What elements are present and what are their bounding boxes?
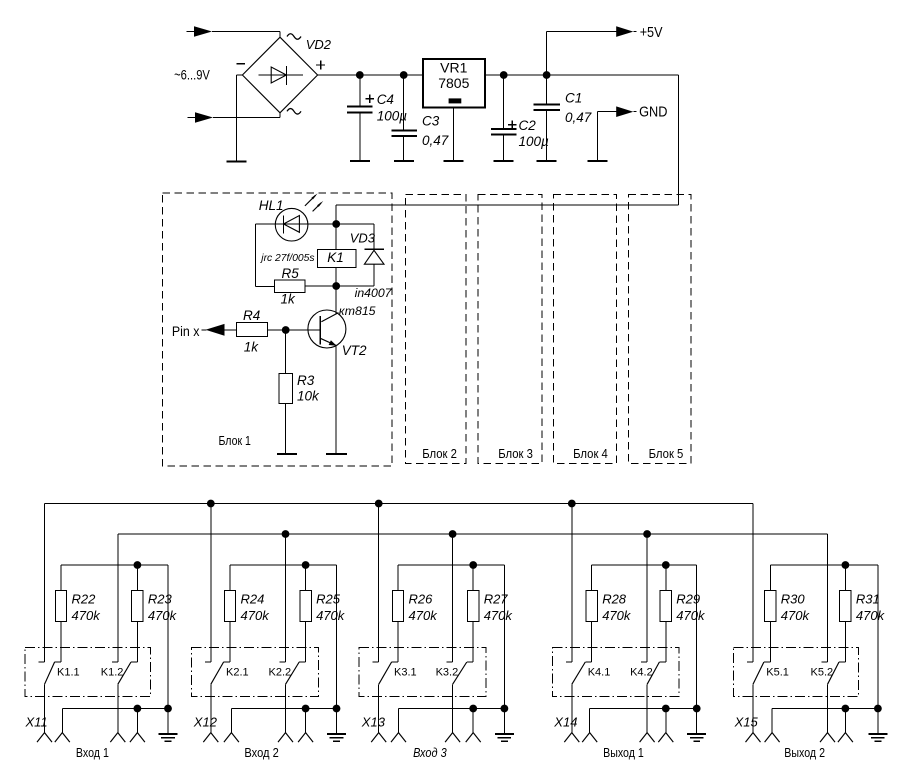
node ground tap group 1 bbox=[164, 705, 172, 713]
earth ground group 2 bbox=[327, 733, 346, 735]
transistor VT2 circle bbox=[308, 310, 346, 348]
svg-text:470k: 470k bbox=[676, 608, 706, 623]
svg-text:470k: 470k bbox=[484, 608, 514, 623]
block 3 dashed box bbox=[478, 195, 542, 464]
svg-text:K3.1: K3.1 bbox=[394, 667, 417, 679]
relay contacts K5 dash-dot box bbox=[734, 648, 859, 697]
wire bridge minus to ground bbox=[236, 74, 242, 76]
svg-text:1k: 1k bbox=[281, 291, 297, 306]
local bus group 5 bbox=[770, 564, 878, 566]
node bottom bus R29 tap bbox=[662, 705, 670, 713]
connector pin (K2.1) bbox=[203, 733, 211, 743]
earth ground group 1 bbox=[159, 733, 178, 735]
node local bus R31 tap bbox=[842, 561, 850, 569]
node C3 junction bbox=[400, 71, 408, 79]
wire bus2 drop to K4.2 bbox=[646, 534, 648, 662]
wire bus2 drop to K3.2 bbox=[452, 534, 454, 662]
wire bus end to pin group 1 bbox=[61, 709, 63, 733]
wire K1.2 to pin bbox=[117, 684, 119, 732]
connector pin (common b, group 2) bbox=[298, 733, 306, 743]
svg-text:Вход 1: Вход 1 bbox=[76, 745, 109, 760]
svg-text:470k: 470k bbox=[241, 608, 271, 623]
svg-text:R3: R3 bbox=[297, 373, 315, 388]
svg-text:K4.1: K4.1 bbox=[588, 667, 611, 679]
wire HL1 left rail bbox=[254, 224, 256, 286]
connector pin (K1.2) bbox=[110, 733, 118, 743]
K5.2 fixed contact hook bbox=[822, 661, 828, 663]
svg-text:Блок 1: Блок 1 bbox=[219, 433, 251, 448]
earth ground group 4 bbox=[687, 733, 706, 735]
svg-text:K2.1: K2.1 bbox=[226, 667, 249, 679]
contact K5.2 moving contact hook bbox=[839, 661, 845, 663]
connector pin (common b, group 1) bbox=[130, 733, 138, 743]
svg-text:Блок 4: Блок 4 bbox=[573, 446, 608, 461]
svg-text:C4: C4 bbox=[377, 92, 394, 107]
svg-text:GND: GND bbox=[639, 104, 667, 120]
svg-text:Вход 3: Вход 3 bbox=[413, 745, 447, 760]
svg-text:~6...9V: ~6...9V bbox=[174, 68, 210, 83]
contact K3.2 moving contact hook bbox=[467, 661, 473, 663]
ground (GND branch) bbox=[588, 160, 608, 162]
svg-text:100µ: 100µ bbox=[519, 134, 550, 149]
connector pin (K1.1) bbox=[37, 733, 45, 743]
contact K1.1 blade bbox=[45, 662, 55, 684]
wire local bus to ground group 4 bbox=[696, 565, 698, 734]
ground (VT2 emitter) bbox=[326, 453, 347, 455]
svg-text:R24: R24 bbox=[241, 592, 265, 607]
resistor R31 bbox=[844, 565, 846, 591]
svg-text:R30: R30 bbox=[781, 592, 806, 607]
wire R4 to base node bbox=[268, 329, 286, 331]
node bottom bus R25 tap bbox=[302, 705, 310, 713]
relay coil K1 lead top bbox=[335, 224, 337, 249]
contact K2.2 blade bbox=[286, 662, 300, 684]
K4.2 fixed contact hook bbox=[641, 661, 647, 663]
node bus1 tap group 2 bbox=[207, 500, 215, 508]
resistor R25 bbox=[305, 565, 307, 591]
node bottom bus R31 tap bbox=[842, 705, 850, 713]
block 1 dashed box bbox=[163, 193, 393, 466]
svg-text:X14: X14 bbox=[553, 715, 577, 730]
svg-text:470k: 470k bbox=[602, 608, 632, 623]
HL1 led arrow 1 bbox=[305, 195, 316, 206]
+5V output arrow bbox=[616, 26, 633, 37]
contact K5.2 blade bbox=[828, 662, 840, 684]
svg-text:470k: 470k bbox=[856, 608, 886, 623]
contact K4.2 blade bbox=[647, 662, 659, 684]
svg-text:470k: 470k bbox=[781, 608, 811, 623]
relay contacts K3 dash-dot box bbox=[359, 648, 486, 697]
ground (C3) bbox=[394, 160, 414, 162]
wire node to VD3 bbox=[336, 223, 374, 225]
svg-text:VR1: VR1 bbox=[440, 60, 467, 76]
contact K3.1 blade bbox=[379, 662, 392, 684]
block 2 dashed box bbox=[406, 195, 467, 464]
signal bus 1 (upper) bbox=[45, 503, 754, 505]
connector pin (K4.2) bbox=[640, 733, 648, 743]
K3.2 fixed contact hook bbox=[447, 661, 453, 663]
svg-text:K1: K1 bbox=[327, 250, 344, 265]
C2 polarity + bbox=[508, 124, 517, 126]
node local bus R23 tap bbox=[134, 561, 142, 569]
wire supply into block1 bbox=[336, 204, 679, 206]
node bottom bus R23 tap bbox=[134, 705, 142, 713]
contact K1.2 moving contact hook bbox=[131, 661, 137, 663]
svg-text:Pin x: Pin x bbox=[172, 323, 200, 339]
node local bus R29 tap bbox=[662, 561, 670, 569]
svg-text:C3: C3 bbox=[422, 114, 440, 129]
earth ground group 3 bbox=[495, 733, 514, 735]
wire K2.2 to pin bbox=[285, 684, 287, 732]
K3.1 fixed contact hook bbox=[373, 661, 379, 663]
connector pin (K4.1) bbox=[564, 733, 572, 743]
wire collector bbox=[335, 286, 337, 313]
VR1 ground tab bbox=[449, 98, 462, 103]
svg-text:R5: R5 bbox=[282, 266, 300, 281]
svg-text:470k: 470k bbox=[409, 608, 439, 623]
svg-text:K1.2: K1.2 bbox=[101, 667, 124, 679]
contact K3.2 blade bbox=[453, 662, 467, 684]
K5.1 fixed contact hook bbox=[747, 661, 753, 663]
wire bus end to pin group 2 bbox=[230, 709, 232, 733]
local bus group 1 bbox=[61, 564, 168, 566]
bottom common bus group 3 bbox=[399, 708, 505, 710]
contact K2.1 blade bbox=[211, 662, 224, 684]
node bus1 tap group 4 bbox=[568, 500, 576, 508]
resistor R26 bbox=[397, 565, 399, 591]
svg-text:кт815: кт815 bbox=[339, 304, 376, 318]
K4.1 fixed contact hook bbox=[566, 661, 572, 663]
svg-text:C2: C2 bbox=[519, 118, 537, 133]
input terminal arrow bottom (~ input 2) bbox=[188, 117, 198, 119]
ground (C2) bbox=[494, 160, 514, 162]
svg-text:R22: R22 bbox=[72, 592, 97, 607]
bridge ~ mark top bbox=[287, 34, 301, 40]
contact K5.1 moving contact hook bbox=[764, 661, 770, 663]
svg-text:X11: X11 bbox=[25, 715, 48, 730]
K1.2 fixed contact hook bbox=[112, 661, 118, 663]
svg-text:VD2: VD2 bbox=[306, 37, 332, 52]
node ground tap group 4 bbox=[693, 705, 701, 713]
Pin x arrow bbox=[202, 329, 207, 331]
HL1 led arrow 2 bbox=[313, 203, 322, 212]
connector pin (common b, group 4) bbox=[658, 733, 666, 743]
node C2 junction bbox=[500, 71, 508, 79]
connector pin (K5.2) bbox=[820, 733, 828, 743]
K2.1 fixed contact hook bbox=[205, 661, 211, 663]
svg-text:R26: R26 bbox=[409, 592, 434, 607]
connector pin (K2.2) bbox=[278, 733, 286, 743]
node local bus R27 tap bbox=[469, 561, 477, 569]
relay coil K1 lead bottom bbox=[335, 267, 337, 286]
block 5 dashed box bbox=[629, 195, 692, 464]
wire K5.2 to pin bbox=[827, 684, 829, 732]
wire local bus to ground group 1 bbox=[167, 565, 169, 734]
wire bus2 drop to K1.2 bbox=[117, 534, 119, 662]
svg-text:1k: 1k bbox=[244, 339, 260, 354]
wire K1.1 to pin bbox=[44, 684, 46, 732]
svg-text:Блок 3: Блок 3 bbox=[498, 446, 533, 461]
contact K4.2 moving contact hook bbox=[659, 661, 665, 663]
contact K1.2 blade bbox=[118, 662, 131, 684]
wire bus1 drop to K2.1 bbox=[210, 504, 212, 663]
wire bus2 drop to K5.2 bbox=[827, 534, 829, 662]
ground (R3) bbox=[277, 453, 297, 455]
contact K2.1 moving contact hook bbox=[224, 661, 230, 663]
svg-text:K1.1: K1.1 bbox=[57, 667, 80, 679]
wire bus1 drop to K4.1 bbox=[571, 504, 573, 663]
resistor R4 bbox=[236, 323, 267, 337]
wire main +5V rail right bbox=[485, 74, 679, 76]
LED HL1 bbox=[275, 208, 308, 241]
connector pin (K3.2) bbox=[445, 733, 453, 743]
resistor R28 bbox=[591, 565, 593, 591]
earth ground group 5 bbox=[868, 733, 887, 735]
svg-text:C1: C1 bbox=[565, 90, 582, 105]
wire tap to pin group 2 bbox=[305, 709, 307, 733]
wire HL1 row bbox=[256, 223, 337, 225]
wire rail down to block 1 bbox=[678, 75, 680, 205]
svg-text:K5.1: K5.1 bbox=[766, 667, 789, 679]
diode VD3 bbox=[364, 248, 384, 250]
wire K4.1 to pin bbox=[571, 684, 573, 732]
bottom common bus group 4 bbox=[590, 708, 697, 710]
svg-text:jrc 27f/005s: jrc 27f/005s bbox=[259, 253, 314, 264]
wire base bbox=[286, 329, 321, 331]
resistor R3 bbox=[279, 374, 292, 404]
svg-text:K4.2: K4.2 bbox=[630, 667, 653, 679]
bottom common bus group 5 bbox=[772, 708, 878, 710]
capacitor C2 bbox=[503, 75, 505, 128]
svg-text:HL1: HL1 bbox=[259, 198, 284, 213]
wire local bus to ground group 5 bbox=[877, 565, 879, 734]
wire tap to pin group 1 bbox=[136, 709, 138, 733]
ground (VR1) bbox=[444, 160, 464, 162]
ground (C1) bbox=[537, 160, 557, 162]
local bus group 4 bbox=[592, 564, 697, 566]
svg-text:Блок 2: Блок 2 bbox=[422, 446, 457, 461]
resistor R22 bbox=[60, 565, 62, 591]
wire GND branch bbox=[598, 111, 617, 113]
wire +5V branch bbox=[546, 32, 548, 76]
connector pin (common b, group 5) bbox=[838, 733, 846, 743]
node bottom bus R27 tap bbox=[469, 705, 477, 713]
resistor R23 bbox=[136, 565, 138, 591]
wire bus end to pin group 4 bbox=[589, 709, 591, 733]
svg-text:+5V: +5V bbox=[640, 25, 663, 41]
connector pin (common a, group 2) bbox=[224, 733, 232, 743]
svg-text:R25: R25 bbox=[316, 592, 341, 607]
svg-text:R23: R23 bbox=[148, 592, 173, 607]
node C4 junction bbox=[356, 71, 364, 79]
contact K3.1 moving contact hook bbox=[392, 661, 398, 663]
wire local bus to ground group 3 bbox=[503, 565, 505, 734]
connector pin (common a, group 1) bbox=[55, 733, 63, 743]
svg-text:R31: R31 bbox=[856, 592, 880, 607]
capacitor C1 bbox=[546, 75, 548, 103]
ground (bridge) bbox=[226, 161, 246, 163]
node C1 / +5V junction bbox=[543, 71, 551, 79]
bridge plus label bbox=[316, 64, 325, 66]
svg-text:in4007: in4007 bbox=[355, 286, 393, 300]
resistor R30 bbox=[769, 565, 771, 591]
svg-text:470k: 470k bbox=[316, 608, 346, 623]
svg-text:X12: X12 bbox=[193, 715, 218, 730]
node ground tap group 2 bbox=[333, 705, 341, 713]
svg-text:X13: X13 bbox=[361, 715, 386, 730]
K2.2 fixed contact hook bbox=[280, 661, 286, 663]
svg-text:0,47: 0,47 bbox=[422, 133, 449, 148]
relay contacts K1 dash-dot box bbox=[25, 648, 150, 697]
wire VD3 to node2 bbox=[336, 285, 374, 287]
bridge rectifier VD2 diamond bbox=[242, 37, 317, 113]
transistor VT2 collector stroke bbox=[321, 313, 338, 322]
wire bus1 drop to K5.1 bbox=[752, 504, 754, 663]
node local bus R25 tap bbox=[302, 561, 310, 569]
block 4 dashed box bbox=[554, 195, 617, 464]
transistor VT2 emitter arrow bbox=[329, 340, 337, 346]
wire R5 to node2 bbox=[305, 285, 336, 287]
relay coil K1 box bbox=[318, 249, 356, 267]
contact K5.1 blade bbox=[753, 662, 764, 684]
connector pin (common a, group 3) bbox=[391, 733, 399, 743]
contact K1.1 moving contact hook bbox=[55, 661, 61, 663]
wire bus1 drop to K3.1 bbox=[378, 504, 380, 663]
svg-text:470k: 470k bbox=[72, 608, 102, 623]
GND output arrow bbox=[616, 106, 633, 117]
bridge ~ mark bottom bbox=[287, 109, 301, 115]
wire local bus to ground group 2 bbox=[336, 565, 338, 734]
connector pin (K5.1) bbox=[746, 733, 754, 743]
wire base node to R3 bbox=[285, 330, 287, 374]
bottom common bus group 2 bbox=[231, 708, 336, 710]
signal bus 2 (lower) bbox=[118, 533, 828, 535]
wire bus2 drop to K2.2 bbox=[285, 534, 287, 662]
svg-text:R28: R28 bbox=[602, 592, 627, 607]
svg-text:100µ: 100µ bbox=[377, 109, 408, 124]
resistor R27 bbox=[472, 565, 474, 591]
svg-text:Выход 1: Выход 1 bbox=[603, 745, 644, 760]
svg-text:K5.2: K5.2 bbox=[811, 667, 834, 679]
wire bus end to pin group 3 bbox=[398, 709, 400, 733]
node HL1/K1 junction bbox=[332, 220, 340, 228]
contact K2.2 moving contact hook bbox=[299, 661, 305, 663]
relay contacts K2 dash-dot box bbox=[191, 648, 318, 697]
wire tap to pin group 5 bbox=[844, 709, 846, 733]
resistor R29 bbox=[665, 565, 667, 591]
wire tap to pin group 3 bbox=[472, 709, 474, 733]
svg-text:470k: 470k bbox=[148, 608, 178, 623]
K1.1 fixed contact hook bbox=[39, 661, 45, 663]
node base junction bbox=[282, 326, 290, 334]
wire K3.1 to pin bbox=[378, 684, 380, 732]
svg-text:7805: 7805 bbox=[438, 75, 469, 91]
contact K4.1 moving contact hook bbox=[585, 661, 591, 663]
svg-text:0,47: 0,47 bbox=[565, 110, 592, 125]
wire K3.2 to pin bbox=[452, 684, 454, 732]
transistor VT2 emitter stroke bbox=[320, 338, 336, 345]
svg-text:X15: X15 bbox=[734, 715, 759, 730]
svg-text:K2.2: K2.2 bbox=[269, 667, 292, 679]
relay contacts K4 dash-dot box bbox=[552, 648, 679, 697]
wire bus end to pin group 5 bbox=[771, 709, 773, 733]
node bus2 tap group 4 bbox=[643, 530, 651, 538]
bottom common bus group 1 bbox=[62, 708, 168, 710]
transistor VT2 base bar bbox=[319, 316, 321, 345]
wire bus1 drop to K1.1 bbox=[44, 504, 46, 663]
contact K4.1 blade bbox=[572, 662, 586, 684]
svg-text:R4: R4 bbox=[243, 308, 260, 323]
ground (C4) bbox=[350, 160, 370, 162]
node bus1 tap group 3 bbox=[375, 500, 383, 508]
svg-text:VD3: VD3 bbox=[350, 230, 376, 245]
wire K4.2 to pin bbox=[646, 684, 648, 732]
node bus2 tap group 2 bbox=[282, 530, 290, 538]
svg-text:Блок 5: Блок 5 bbox=[649, 446, 684, 461]
capacitor C4 bbox=[359, 75, 361, 106]
local bus group 2 bbox=[230, 564, 337, 566]
svg-text:10k: 10k bbox=[297, 388, 320, 403]
capacitor C3 bbox=[403, 75, 405, 130]
connector pin (common b, group 3) bbox=[466, 733, 474, 743]
wire emitter to ground bbox=[335, 346, 337, 454]
svg-text:Вход 2: Вход 2 bbox=[244, 745, 278, 760]
wire R3 to ground bbox=[285, 404, 287, 454]
node ground tap group 5 bbox=[874, 705, 882, 713]
connector pin (K3.1) bbox=[371, 733, 379, 743]
local bus group 3 bbox=[398, 564, 504, 566]
regulator VR1 box bbox=[423, 59, 485, 108]
connector pin (common a, group 4) bbox=[582, 733, 590, 743]
input terminal arrow top (~ input 1) bbox=[187, 31, 197, 33]
wire tap to pin group 4 bbox=[665, 709, 667, 733]
resistor R24 bbox=[229, 565, 231, 591]
wire K5.1 to pin bbox=[752, 684, 754, 732]
VR1 ground lead bbox=[453, 108, 455, 162]
connector pin (common a, group 5) bbox=[765, 733, 773, 743]
wire K2.1 to pin bbox=[210, 684, 212, 732]
node bus2 tap group 3 bbox=[449, 530, 457, 538]
node ground tap group 3 bbox=[501, 705, 509, 713]
svg-text:VT2: VT2 bbox=[342, 343, 367, 358]
wire main +5V rail left bbox=[318, 74, 423, 76]
node K1/R5 junction bbox=[332, 282, 340, 290]
C4 polarity + bbox=[365, 98, 374, 100]
svg-text:K3.2: K3.2 bbox=[436, 667, 459, 679]
bridge minus label bbox=[236, 63, 245, 65]
bridge VD2 inner diode bbox=[259, 74, 303, 76]
resistor R5 bbox=[275, 280, 306, 293]
svg-text:Выход 2: Выход 2 bbox=[784, 745, 825, 760]
